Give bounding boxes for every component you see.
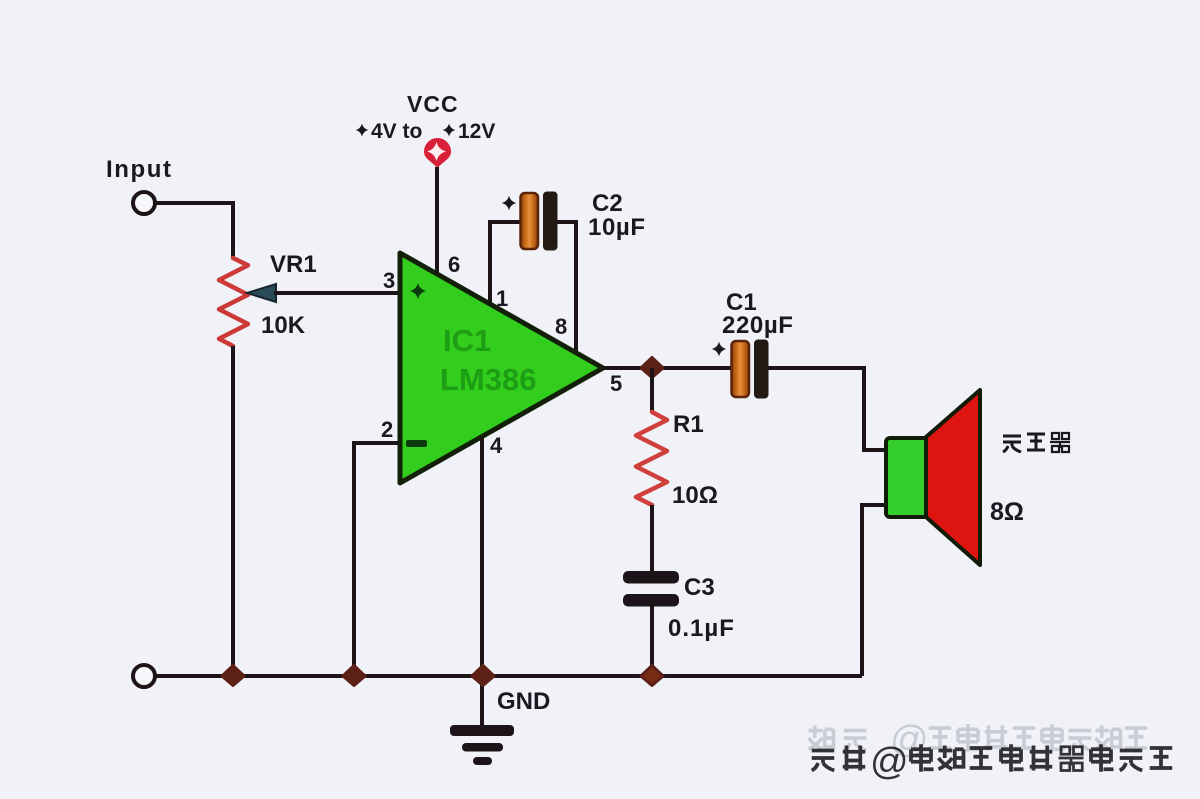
svg-text:0.1µF: 0.1µF bbox=[668, 615, 735, 642]
junction at pin 2 wire bbox=[343, 666, 365, 686]
svg-text:@: @ bbox=[870, 741, 909, 783]
wire C3 to rail bbox=[650, 606, 654, 676]
wire pin 4 down to ground rail bbox=[480, 438, 484, 725]
svg-text:GND: GND bbox=[497, 688, 550, 715]
svg-text:VR1: VR1 bbox=[270, 251, 317, 278]
svg-text:8: 8 bbox=[555, 314, 567, 339]
op-amp IC1 LM386 triangle bbox=[400, 253, 603, 483]
wire C1 to speaker top bbox=[768, 368, 886, 450]
svg-text:10Ω: 10Ω bbox=[672, 482, 718, 509]
wire node to C1 bbox=[652, 366, 732, 370]
speaker horn red cone bbox=[926, 390, 980, 565]
ground rail wire bbox=[156, 674, 862, 678]
speaker body green box bbox=[886, 438, 928, 517]
speaker wire bottom bbox=[862, 505, 886, 676]
wire node down to R1 bbox=[650, 368, 654, 412]
wire R1 to C3 bbox=[650, 505, 654, 571]
svg-text:10µF: 10µF bbox=[588, 214, 646, 241]
input terminal circle bbox=[133, 192, 155, 214]
resistor R1 zigzag bbox=[636, 412, 667, 505]
capacitor C3 bottom plate bbox=[623, 594, 679, 607]
svg-text:VCC: VCC bbox=[407, 91, 459, 117]
wire VR1 bottom to rail bbox=[231, 346, 235, 676]
ground symbol bar 3 bbox=[473, 757, 492, 765]
bottom terminal circle bbox=[133, 665, 155, 687]
capacitor C1 plus star bbox=[712, 342, 726, 356]
capacitor C1 positive plate bbox=[732, 341, 750, 397]
svg-text:LM386: LM386 bbox=[440, 362, 536, 397]
svg-text:5: 5 bbox=[610, 371, 622, 396]
op-amp minus input bar bbox=[406, 440, 427, 447]
svg-text:3: 3 bbox=[383, 268, 395, 293]
svg-text:2: 2 bbox=[381, 417, 393, 442]
capacitor C2 negative plate bbox=[544, 192, 558, 250]
svg-text:C2: C2 bbox=[592, 190, 623, 217]
capacitor C2 plus star bbox=[502, 196, 516, 210]
VCC node (red terminal) bbox=[424, 138, 451, 168]
svg-text:4: 4 bbox=[490, 433, 503, 458]
capacitor C3 top plate bbox=[623, 571, 679, 584]
label +4V to +12V bbox=[356, 120, 496, 143]
VCC node white star center bbox=[427, 142, 446, 161]
svg-text:C3: C3 bbox=[684, 574, 715, 601]
junction node at pin 5 output bbox=[641, 358, 663, 378]
potentiometer VR1 zigzag bbox=[219, 258, 248, 346]
wire C2 left (pin 1 loop) bbox=[490, 222, 523, 304]
wire input to VR1 top bbox=[156, 203, 233, 258]
junction at VR1 bottom bbox=[222, 666, 244, 686]
ground symbol bar 2 bbox=[462, 743, 503, 752]
wire pin 5 to output node bbox=[602, 366, 652, 370]
svg-text:1: 1 bbox=[496, 286, 508, 311]
watermark light layer: zhihu @ engineer assistant bbox=[809, 719, 1148, 761]
junction at C3 bottom bbox=[641, 666, 663, 686]
wire wiper to pin 3 bbox=[274, 291, 399, 295]
svg-text:8Ω: 8Ω bbox=[990, 498, 1024, 526]
ground symbol bar 1 bbox=[450, 725, 514, 736]
wire pin 2 to left then down bbox=[354, 443, 399, 676]
svg-text:6: 6 bbox=[448, 252, 460, 277]
wire VCC to pin 6 bbox=[435, 167, 439, 277]
capacitor C1 negative plate bbox=[755, 340, 769, 398]
svg-text:10K: 10K bbox=[261, 312, 306, 339]
svg-text:220µF: 220µF bbox=[722, 312, 794, 339]
op-amp plus input star bbox=[410, 283, 426, 299]
svg-text:R1: R1 bbox=[673, 411, 704, 438]
svg-text:Input: Input bbox=[106, 156, 173, 183]
watermark dark layer: toutiao @ electronic engineer assistant bbox=[812, 741, 1173, 783]
label speaker (CJK) bbox=[1003, 433, 1070, 452]
wire C2 right (pin 8 loop) bbox=[556, 222, 576, 352]
svg-text:IC1: IC1 bbox=[443, 323, 491, 358]
wiper arrow of VR1 bbox=[247, 284, 276, 302]
svg-text:4V to: 4V to bbox=[371, 120, 422, 143]
svg-text:12V: 12V bbox=[458, 120, 495, 143]
capacitor C2 positive plate bbox=[521, 193, 539, 249]
junction at ground lead bbox=[472, 666, 494, 686]
